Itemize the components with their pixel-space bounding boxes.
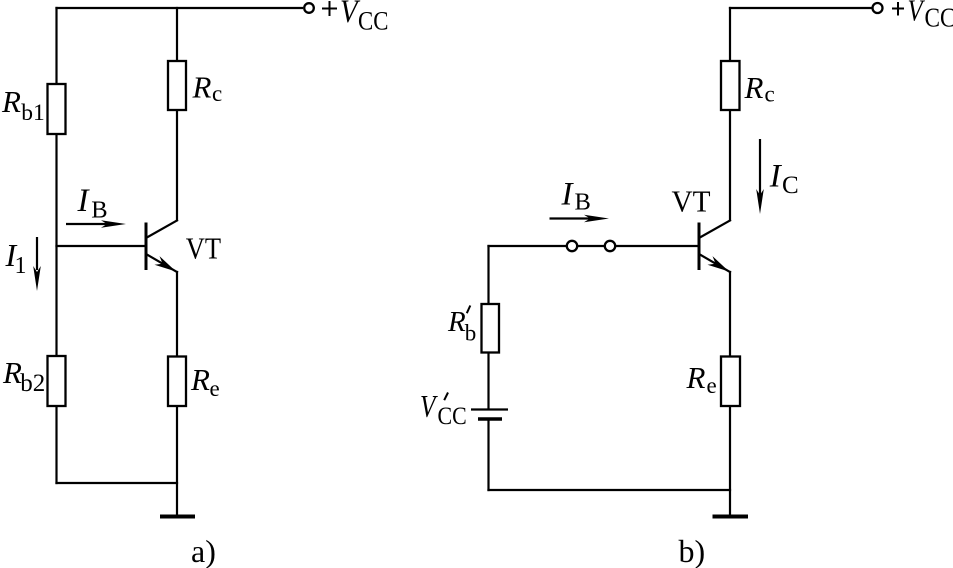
svg-text:CC: CC <box>438 403 467 431</box>
svg-text:V: V <box>908 0 926 28</box>
svg-text:R: R <box>744 70 764 105</box>
svg-text:B: B <box>91 197 107 224</box>
svg-text:VT: VT <box>672 184 711 219</box>
svg-text:b: b <box>465 321 477 346</box>
svg-text:e: e <box>210 376 220 401</box>
svg-text:CC: CC <box>925 4 953 33</box>
svg-text:b1: b1 <box>21 100 45 126</box>
svg-text:1: 1 <box>15 253 27 279</box>
svg-text:I: I <box>561 177 575 213</box>
svg-text:B: B <box>575 189 591 216</box>
svg-text:b): b) <box>679 533 706 568</box>
svg-text:VT: VT <box>186 232 222 266</box>
svg-text:C: C <box>782 172 799 199</box>
svg-text:R: R <box>1 84 21 119</box>
svg-text:R: R <box>192 70 212 105</box>
svg-text:c: c <box>212 81 222 106</box>
svg-text:R: R <box>190 362 210 397</box>
svg-text:CC: CC <box>358 7 388 36</box>
svg-text:R: R <box>2 355 22 390</box>
svg-text:a): a) <box>191 533 216 568</box>
svg-text:c: c <box>765 82 775 107</box>
svg-text:I: I <box>769 159 783 195</box>
svg-text:R: R <box>686 360 706 395</box>
svg-text:R: R <box>447 306 466 338</box>
svg-text:I: I <box>77 183 91 219</box>
svg-text:b2: b2 <box>20 370 45 397</box>
svg-text:e: e <box>707 373 717 398</box>
